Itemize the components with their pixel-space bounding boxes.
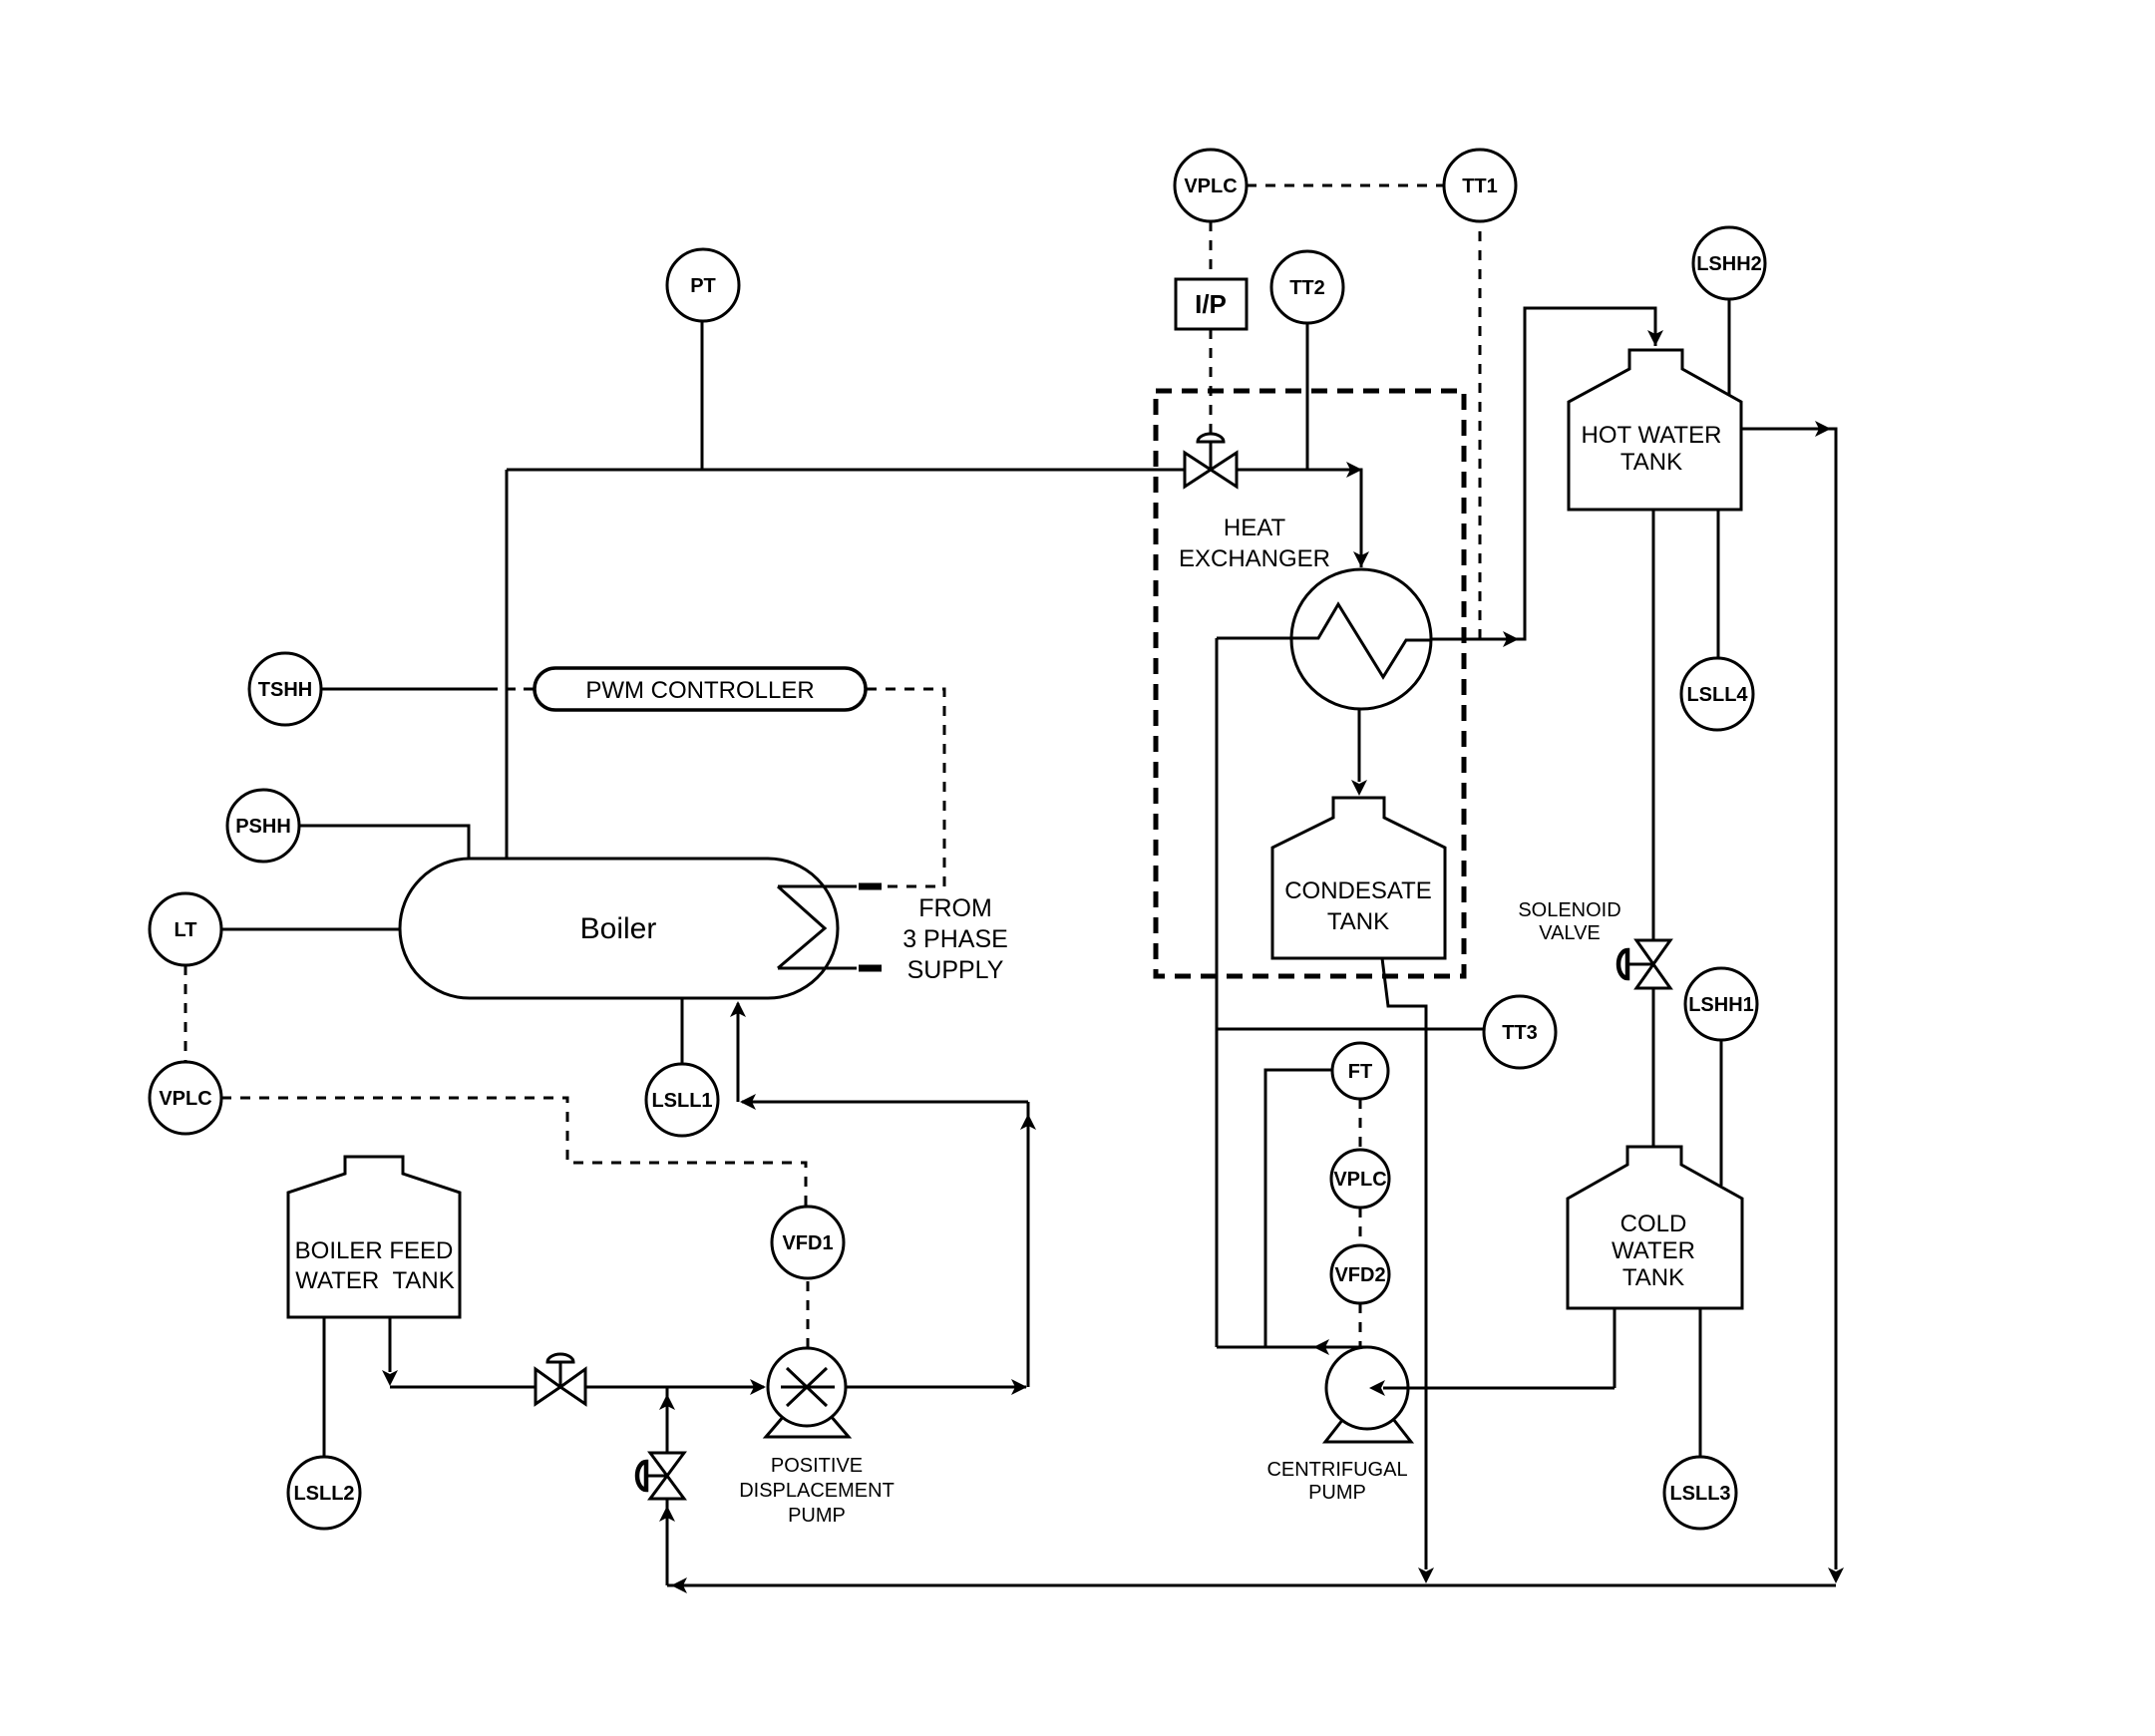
svg-text:3 PHASE: 3 PHASE <box>902 925 1008 953</box>
svg-text:LT: LT <box>175 919 197 941</box>
wire VFD1 to PD pump (dashed) <box>807 1278 810 1348</box>
svg-text:POSITIVE: POSITIVE <box>771 1455 863 1477</box>
wire LSLL1 stem <box>681 998 684 1064</box>
svg-text:FT: FT <box>1348 1061 1372 1083</box>
instrument labels <box>159 175 1761 1505</box>
wire centrifugal pump discharge <box>1217 1346 1367 1349</box>
solenoid valve <box>1618 940 1670 988</box>
instrument FT <box>1332 1043 1388 1099</box>
instrument PSHH <box>227 790 299 862</box>
instrument TSHH <box>249 653 321 725</box>
PWM controller <box>535 668 866 710</box>
wire HE to condensate tank <box>1358 709 1361 782</box>
wire TT2 stem <box>1306 322 1309 470</box>
instrument VPLC left <box>150 1062 221 1134</box>
wire LT to VPLC (dashed) <box>184 965 187 1062</box>
wire VPLC to I/P (dashed) <box>1210 221 1213 279</box>
instrument VFD1 <box>772 1207 844 1278</box>
wire feed riser into boiler <box>737 1003 740 1102</box>
instrument PT <box>667 249 739 321</box>
wire VFD2 to centrifugal pump (dashed) <box>1359 1303 1362 1347</box>
wire bottom return line <box>667 1584 1836 1587</box>
wire hot tank to solenoid valve <box>1652 510 1655 940</box>
svg-text:PSHH: PSHH <box>235 816 291 838</box>
wire FT to VPLC (dashed) <box>1359 1099 1362 1150</box>
wire solenoid valve to cold tank <box>1652 988 1655 1147</box>
condensate tank <box>1272 798 1445 958</box>
instrument LSLL2 <box>288 1457 360 1529</box>
wire condensate drain <box>1382 958 1426 1569</box>
wire TSHH to PWM controller <box>321 688 498 691</box>
wire LSHH1 stem <box>1720 1040 1723 1186</box>
boiler <box>400 859 838 998</box>
heater element in boiler <box>778 886 857 968</box>
wire hot tank outlet riser <box>1741 429 1836 1569</box>
wire FT tap <box>1265 1070 1332 1347</box>
svg-text:TT2: TT2 <box>1289 277 1325 299</box>
wire LSLL4 stem <box>1717 510 1720 658</box>
wire PSHH to boiler <box>299 826 469 859</box>
svg-text:I/P: I/P <box>1195 289 1227 319</box>
svg-text:PWM CONTROLLER: PWM CONTROLLER <box>585 677 814 704</box>
heat exchanger boundary (dashed box) <box>1156 391 1464 976</box>
wire PWM controller to heater (dashed) <box>867 689 944 886</box>
wire PT stem <box>701 321 704 470</box>
svg-text:HOT WATER: HOT WATER <box>1582 422 1722 449</box>
wire LT to boiler <box>221 928 400 931</box>
svg-text:TANK: TANK <box>1327 908 1389 935</box>
wire LSLL3 stem <box>1699 1308 1702 1457</box>
wire feed return riser <box>1027 1102 1030 1387</box>
instrument VPLC top <box>1175 150 1247 221</box>
instrument VFD2 <box>1331 1245 1389 1303</box>
instrument TT3 <box>1484 996 1556 1068</box>
wire feed return horizontal <box>742 1101 1028 1104</box>
from 3 phase supply label <box>902 894 1008 984</box>
wire TT1 tap (dashed) <box>1479 221 1482 639</box>
wire drain column upper <box>666 1387 669 1452</box>
svg-text:LSLL2: LSLL2 <box>293 1483 354 1505</box>
svg-text:SUPPLY: SUPPLY <box>907 956 1004 984</box>
svg-text:TSHH: TSHH <box>258 679 312 701</box>
svg-text:BOILER FEED: BOILER FEED <box>295 1237 454 1264</box>
svg-text:Boiler: Boiler <box>580 912 657 945</box>
svg-text:COLD: COLD <box>1620 1211 1687 1237</box>
svg-text:VFD1: VFD1 <box>782 1232 833 1254</box>
svg-text:VPLC: VPLC <box>1333 1169 1386 1191</box>
steam control valve <box>1185 434 1237 487</box>
wire suction into centrifugal pump <box>1383 1387 1615 1390</box>
wire feed pipe to PD pump <box>390 1386 764 1389</box>
svg-text:PT: PT <box>690 275 716 297</box>
svg-text:TANK: TANK <box>1620 449 1682 476</box>
instrument LT <box>150 893 221 965</box>
svg-text:VALVE: VALVE <box>1539 922 1601 944</box>
wire cold tank outlet to pump <box>1614 1308 1616 1388</box>
wire PD pump discharge <box>846 1386 1026 1389</box>
wire VPLC to VFD1 (dashed) <box>221 1098 806 1207</box>
hot water tank <box>1569 350 1741 510</box>
arrowheads <box>1346 462 1362 478</box>
wire VPLC to VFD2 (dashed) <box>1359 1208 1362 1245</box>
instrument LSLL1 <box>646 1064 718 1136</box>
svg-text:PUMP: PUMP <box>788 1505 846 1527</box>
wire cold side riser to HE <box>1216 638 1219 1347</box>
svg-text:DISPLACEMENT: DISPLACEMENT <box>739 1480 895 1502</box>
svg-text:PUMP: PUMP <box>1308 1482 1366 1504</box>
instrument LSLL4 <box>1681 658 1753 730</box>
instrument circles <box>150 150 1765 1529</box>
svg-text:WATER TANK: WATER TANK <box>295 1267 455 1294</box>
svg-text:VFD2: VFD2 <box>1334 1264 1385 1286</box>
instrument LSHH2 <box>1693 227 1765 299</box>
wire LSLL2 stem <box>323 1317 326 1457</box>
svg-text:LSHH1: LSHH1 <box>1688 994 1754 1016</box>
svg-text:TT1: TT1 <box>1462 175 1498 197</box>
svg-text:WATER: WATER <box>1612 1237 1695 1264</box>
svg-text:SOLENOID: SOLENOID <box>1518 899 1620 921</box>
wire TT3 tap <box>1217 1028 1484 1031</box>
wire I/P to control valve (dashed) <box>1210 329 1213 434</box>
positive displacement pump <box>766 1416 849 1437</box>
instrument TT2 <box>1271 251 1343 323</box>
wire HE left stub <box>1217 637 1292 640</box>
svg-text:LSLL3: LSLL3 <box>1669 1483 1730 1505</box>
svg-text:HEAT: HEAT <box>1224 515 1286 541</box>
svg-text:LSLL1: LSLL1 <box>651 1090 712 1112</box>
instrument VPLC mid <box>1331 1150 1389 1208</box>
manual valve near BFW tank <box>536 1354 585 1404</box>
wire drain column lower <box>666 1499 669 1585</box>
svg-text:TANK: TANK <box>1622 1264 1684 1291</box>
svg-text:VPLC: VPLC <box>1184 175 1237 197</box>
svg-text:VPLC: VPLC <box>159 1088 211 1110</box>
wire boiler top riser <box>506 470 509 859</box>
wire BFW tank outlet <box>389 1317 392 1372</box>
svg-text:LSLL4: LSLL4 <box>1686 684 1748 706</box>
cold water tank <box>1568 1147 1742 1308</box>
heater supply terminals <box>859 883 882 890</box>
svg-text:CENTRIFUGAL: CENTRIFUGAL <box>1266 1459 1407 1481</box>
svg-text:FROM: FROM <box>918 894 992 922</box>
svg-text:TT3: TT3 <box>1502 1022 1538 1044</box>
svg-text:EXCHANGER: EXCHANGER <box>1179 545 1330 572</box>
heat exchanger <box>1291 569 1431 709</box>
wire steam main from boiler to heat exchanger <box>507 470 1361 567</box>
svg-text:LSHH2: LSHH2 <box>1696 253 1762 275</box>
svg-text:CONDESATE: CONDESATE <box>1284 877 1432 904</box>
centrifugal pump <box>1325 1419 1411 1442</box>
drain valve (bottom left) <box>637 1453 684 1499</box>
instrument TT1 <box>1444 150 1516 221</box>
wire VPLC to TT1 (dashed) <box>1247 184 1444 187</box>
I/P converter <box>1176 279 1247 329</box>
wire HE outlet to hot tank <box>1432 308 1655 639</box>
instrument LSHH1 <box>1685 968 1757 1040</box>
boiler feed water tank <box>288 1157 460 1317</box>
wire LSHH2 stem <box>1728 299 1731 395</box>
instrument LSLL3 <box>1664 1457 1736 1529</box>
